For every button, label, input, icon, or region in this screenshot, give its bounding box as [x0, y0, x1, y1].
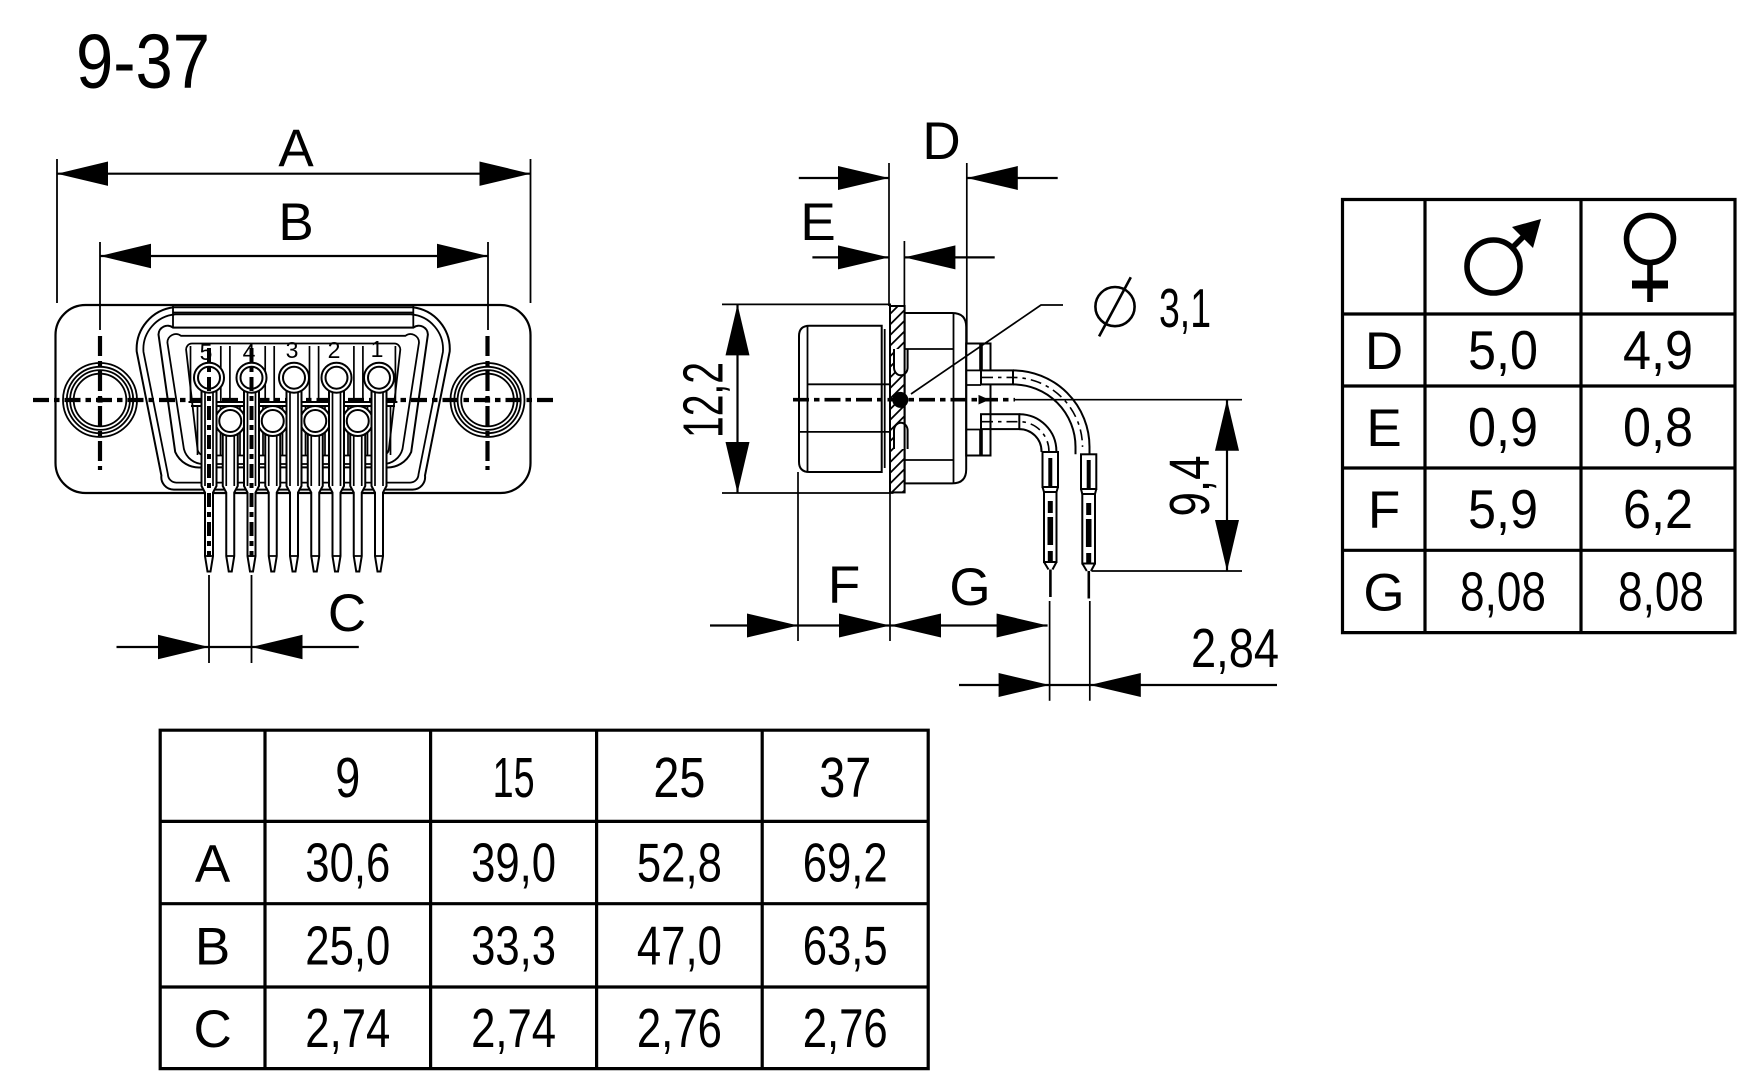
svg-text:5,0: 5,0 — [1468, 319, 1538, 381]
female symbol — [1627, 216, 1674, 303]
hole center dots — [97, 397, 102, 402]
dimension C — [117, 575, 367, 663]
pin 4 solder tail — [244, 378, 259, 572]
top pin row circles — [194, 348, 394, 557]
shell opening lines — [966, 385, 981, 430]
side view centerline — [793, 398, 1015, 402]
svg-text:C: C — [193, 1000, 231, 1059]
svg-text:3: 3 — [286, 337, 299, 363]
front block inner vertical — [953, 313, 955, 483]
pin 4 contact circle — [237, 363, 267, 393]
svg-text:25: 25 — [653, 746, 705, 810]
mounting hole right — [451, 363, 525, 437]
svg-text:2,76: 2,76 — [637, 997, 722, 1059]
front view centerline horizontal — [33, 398, 553, 402]
svg-text:G: G — [949, 558, 990, 617]
crosshair vertical right — [485, 336, 489, 470]
pin 3 contact circle — [279, 363, 309, 393]
flange top band — [173, 306, 413, 328]
svg-text:2,76: 2,76 — [803, 997, 888, 1059]
svg-text:3,1: 3,1 — [1159, 277, 1211, 339]
shell wall inner D — [167, 334, 419, 464]
pin 5 contact circle — [194, 363, 224, 393]
svg-text:G: G — [1363, 564, 1404, 623]
svg-text:6,2: 6,2 — [1623, 478, 1693, 540]
lower pin dashdot centerline — [982, 422, 1049, 452]
connector body front view — [56, 305, 531, 493]
svg-text:9,4: 9,4 — [1158, 456, 1222, 517]
svg-text:12,2: 12,2 — [672, 362, 736, 438]
insert parting line — [189, 402, 398, 406]
inner shell flange line — [143, 314, 443, 482]
pin 6 contact circle — [343, 406, 373, 436]
pin 5 solder tail — [202, 378, 217, 572]
mounting hole left — [63, 363, 137, 437]
upper pin dashdot centerline — [982, 377, 1083, 447]
svg-text:2,74: 2,74 — [305, 997, 390, 1059]
gender table grid — [1343, 200, 1736, 633]
svg-text:8,08: 8,08 — [1618, 561, 1704, 623]
svg-text:B: B — [278, 193, 313, 252]
dimension D — [799, 112, 1058, 344]
svg-text:9-37: 9-37 — [76, 19, 210, 105]
svg-text:2: 2 — [328, 337, 341, 363]
retaining clip lower — [894, 423, 908, 449]
svg-text:8,08: 8,08 — [1460, 561, 1546, 623]
outer shell flange D outline — [137, 307, 450, 489]
rear block mold line upper — [808, 383, 891, 385]
retaining clip upper — [894, 349, 908, 375]
upper pin tab — [981, 370, 1013, 384]
svg-text:F: F — [1368, 481, 1400, 540]
right barrel wire marks — [1087, 460, 1091, 488]
svg-text:D: D — [922, 112, 960, 171]
pin 1 contact circle — [364, 363, 394, 393]
svg-text:C: C — [328, 584, 366, 643]
upper pin bend — [1013, 370, 1090, 454]
svg-text:D: D — [1365, 322, 1403, 381]
lower pin tab — [981, 414, 1019, 429]
svg-text:A: A — [278, 119, 314, 178]
front shell block — [905, 313, 967, 483]
left crimp barrel — [1043, 452, 1059, 597]
pin 6 solder tail — [350, 421, 365, 572]
pin 7 contact circle — [300, 406, 330, 436]
insert cavity walls bottom row — [198, 406, 391, 455]
dimension B — [100, 193, 488, 330]
top pin row tails — [202, 378, 387, 572]
front block step lines — [905, 349, 954, 460]
centerline arrow at shell face — [979, 395, 990, 405]
pin 2 solder tail — [329, 378, 344, 572]
svg-text:2,74: 2,74 — [471, 997, 556, 1059]
svg-text:A: A — [195, 834, 231, 893]
left barrel wire marks — [1048, 458, 1052, 486]
rear block silhouette line — [807, 326, 809, 472]
svg-text:4,9: 4,9 — [1623, 319, 1693, 381]
svg-text:E: E — [1366, 399, 1401, 458]
pin 4 centerline dash-dot — [250, 348, 254, 557]
hole dot — [892, 392, 908, 408]
leader line to dia label — [911, 305, 1063, 394]
bottom pin row — [198, 406, 391, 572]
dimension 9,4 — [1014, 400, 1242, 571]
svg-text:E: E — [800, 193, 835, 252]
svg-text:9: 9 — [335, 746, 360, 810]
diameter symbol — [1095, 277, 1134, 336]
male symbol — [1467, 226, 1534, 293]
pin 8 solder tail — [265, 421, 280, 572]
insert D outline — [186, 344, 400, 456]
svg-text:69,2: 69,2 — [803, 831, 888, 893]
shell wall outer D — [159, 326, 428, 468]
svg-text:5,9: 5,9 — [1468, 478, 1538, 540]
right crimp barrel — [1081, 454, 1096, 598]
pin 5 centerline dash-dot — [207, 348, 211, 557]
crosshair vertical left — [98, 336, 102, 470]
mounting flange hatched — [890, 306, 905, 492]
svg-text:5: 5 — [200, 339, 213, 365]
dimension A — [57, 119, 531, 303]
rear block mold line lower — [799, 431, 890, 433]
pin 1 solder tail — [372, 378, 387, 572]
dimension 12,2 — [672, 304, 894, 493]
size table grid — [160, 730, 928, 1068]
svg-text:2,84: 2,84 — [1191, 617, 1279, 679]
svg-text:37: 37 — [819, 746, 871, 810]
svg-text:30,6: 30,6 — [305, 831, 390, 893]
pin 9 solder tail — [223, 421, 238, 572]
insert cavity dividers top row — [191, 346, 396, 402]
svg-text:4: 4 — [243, 339, 256, 365]
svg-text:F: F — [828, 556, 860, 615]
svg-text:B: B — [195, 917, 230, 976]
svg-text:33,3: 33,3 — [471, 914, 556, 976]
flange hatching — [890, 306, 898, 314]
rear block right gap line — [884, 329, 886, 468]
svg-text:39,0: 39,0 — [471, 831, 556, 893]
pin 8 contact circle — [258, 406, 288, 436]
svg-text:0,8: 0,8 — [1623, 396, 1693, 458]
svg-text:25,0: 25,0 — [305, 914, 390, 976]
svg-text:47,0: 47,0 — [637, 914, 722, 976]
svg-text:52,8: 52,8 — [637, 831, 722, 893]
lower pin bend — [1019, 414, 1056, 452]
shell edge bold marks — [979, 344, 983, 456]
dimension F and G — [710, 472, 1048, 641]
pin 3 solder tail — [287, 378, 302, 572]
D-shell protrusion — [966, 344, 990, 456]
rear body block — [799, 326, 882, 472]
svg-text:1: 1 — [371, 336, 384, 362]
svg-text:15: 15 — [493, 746, 535, 810]
dimension 2,84 — [959, 601, 1279, 701]
svg-text:63,5: 63,5 — [803, 914, 888, 976]
pin 2 contact circle — [322, 363, 352, 393]
pin 7 solder tail — [308, 421, 323, 572]
pin 9 contact circle — [215, 406, 245, 436]
dimension E — [800, 193, 994, 306]
svg-text:0,9: 0,9 — [1468, 396, 1538, 458]
